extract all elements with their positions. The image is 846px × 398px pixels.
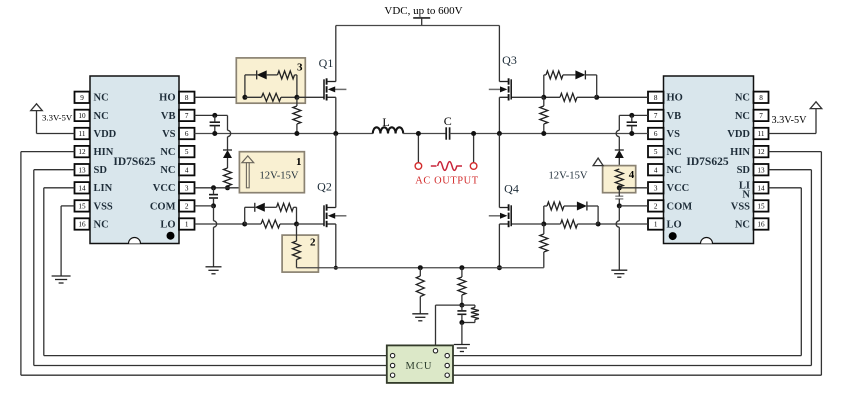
svg-text:4: 4 — [654, 166, 658, 174]
svg-text:1: 1 — [296, 156, 302, 168]
U2 pin 13 box — [754, 164, 769, 175]
node sense R rail — [418, 265, 423, 270]
U2 pin 14 box — [754, 182, 769, 193]
U2 pin label LIN wrapped — [739, 180, 751, 200]
node Q3 gate — [541, 95, 546, 100]
label 12V-15V right — [549, 171, 588, 182]
diode D-boot left — [223, 150, 232, 168]
svg-text:6: 6 — [654, 130, 658, 138]
U2 pin label VSS — [731, 201, 750, 212]
wire VCC left — [195, 187, 248, 189]
ground sense left — [412, 314, 428, 321]
node COM junction — [211, 203, 216, 208]
resistor R-gate-off Q4 — [544, 202, 577, 210]
wire Q3 branch vertical right — [596, 75, 598, 97]
U1 pin 6 box — [179, 128, 195, 139]
svg-text:9: 9 — [80, 94, 84, 102]
resistor R-pulldown Q3 — [540, 97, 548, 133]
svg-text:15: 15 — [757, 203, 765, 211]
svg-text:7: 7 — [185, 112, 189, 120]
wire sense to MCU — [436, 305, 462, 348]
svg-text:VCC: VCC — [667, 183, 690, 194]
node box3 right — [294, 95, 299, 100]
transistor Q4 — [489, 204, 511, 227]
node Q4 net right — [596, 222, 601, 227]
transistor Q2 — [324, 204, 346, 227]
U1 pin label NC — [94, 111, 109, 122]
power VDC T-bar symbol — [413, 18, 430, 26]
U1 pin 5 box — [179, 146, 195, 157]
label Q3 — [502, 53, 517, 67]
svg-text:VB: VB — [667, 111, 682, 122]
wire LIN right — [453, 188, 801, 356]
resistor R-pulldown Q4 — [540, 224, 548, 268]
wire divider to ground — [461, 323, 463, 345]
svg-text:NC: NC — [735, 219, 750, 230]
U2 pin label SD — [737, 165, 751, 176]
U2 pin 11 box — [754, 128, 769, 139]
U2 pin 6 box — [648, 128, 664, 139]
wire COM right — [619, 205, 648, 207]
svg-text:8: 8 — [759, 94, 763, 102]
wire Q1 drain from rail — [335, 26, 337, 82]
svg-text:11: 11 — [758, 130, 765, 138]
svg-text:VSS: VSS — [94, 201, 113, 212]
svg-text:1: 1 — [185, 221, 189, 229]
power flag 12V-15V arrow in box1 — [242, 156, 254, 188]
node AC output left junction — [416, 131, 421, 136]
svg-text:NC: NC — [160, 165, 175, 176]
svg-text:8: 8 — [185, 94, 189, 102]
wire Q3 branch vertical left — [543, 75, 545, 97]
wire COM left — [195, 205, 214, 207]
node boot cap to VS — [212, 131, 217, 136]
svg-text:LIN: LIN — [94, 183, 113, 194]
U2 pin 12 box — [754, 146, 769, 157]
resistor R-gate-off Q1 — [278, 71, 295, 79]
label Q4 — [504, 182, 519, 196]
U2 pin 7 box — [648, 110, 664, 121]
U2 pin 16 box — [754, 218, 769, 229]
svg-text:NC: NC — [667, 165, 682, 176]
svg-text:3.3V-5V: 3.3V-5V — [772, 115, 808, 126]
svg-text:14: 14 — [78, 184, 86, 192]
resistor R-div-bottom parallel — [462, 305, 479, 322]
capacitor C-vcc left — [209, 188, 218, 206]
U1 pin label NC — [160, 165, 175, 176]
svg-text:NC: NC — [160, 147, 175, 158]
wire LIN left — [44, 188, 387, 356]
svg-text:ID7S625: ID7S625 — [113, 156, 155, 168]
wire HIN left — [21, 152, 387, 376]
diode D-gate-Q2 — [245, 203, 277, 212]
svg-text:3: 3 — [297, 62, 303, 74]
U1 pin 2 box — [179, 200, 195, 211]
IC U1 gate driver ID7S625 body — [90, 76, 179, 244]
U2 pin label NC — [735, 93, 750, 104]
U1 pin label LIN — [94, 183, 113, 194]
ground divider — [454, 345, 470, 352]
highlight box 3 — [236, 58, 305, 103]
U2 pin 15 box — [754, 200, 769, 211]
resistor R-gate-on Q3 — [544, 93, 597, 101]
svg-text:8: 8 — [654, 94, 658, 102]
svg-text:VS: VS — [162, 129, 176, 140]
wire L to C — [403, 133, 446, 135]
svg-text:Q1: Q1 — [319, 56, 334, 70]
U1 pin label VS — [162, 129, 176, 140]
node Q2 gate — [294, 222, 299, 227]
U2 pin label NC — [735, 111, 750, 122]
resistor R-gate-off Q2 — [277, 203, 297, 211]
node phase right — [497, 131, 502, 136]
svg-text:HIN: HIN — [94, 147, 114, 158]
wire LO left — [195, 223, 245, 225]
svg-text:SD: SD — [94, 165, 108, 176]
wire top rail VDC — [336, 25, 500, 27]
wire Q4 drain to phase — [498, 134, 500, 208]
U1 pin 10 box — [75, 110, 90, 121]
MCU label — [406, 361, 433, 372]
wire VCC right — [619, 187, 648, 189]
resistor R-gate-on Q1 — [245, 93, 297, 101]
wire box3 right branch vertical — [295, 75, 297, 97]
diode D-gate-Q4 — [577, 202, 598, 211]
svg-text:1: 1 — [654, 221, 658, 229]
U1 pin 11 box — [75, 128, 90, 139]
wire COM to ground — [214, 206, 217, 267]
wire Q4 branch vertical right — [597, 206, 599, 224]
node divider rail — [459, 265, 464, 270]
capacitor C-boot right — [627, 115, 637, 133]
U1 pin label NC — [94, 219, 109, 230]
MCU left pin 3 — [390, 373, 394, 377]
U2 name label — [686, 156, 728, 168]
U1 pin 13 box — [75, 164, 90, 175]
U2 pin 3 box — [648, 182, 664, 193]
wire Q1 gate lead — [297, 96, 324, 98]
svg-text:3.3V-5V: 3.3V-5V — [42, 113, 73, 123]
wire AC terminal right drop — [473, 134, 475, 163]
svg-text:Q4: Q4 — [504, 182, 519, 196]
svg-text:2: 2 — [310, 237, 316, 249]
resistor R-gate-on Q4 — [544, 220, 598, 228]
diode D-boot right — [615, 150, 624, 168]
wire SD left — [34, 170, 387, 366]
svg-text:12: 12 — [78, 148, 86, 156]
svg-text:VS: VS — [667, 129, 681, 140]
AC waveform symbol — [431, 162, 462, 171]
terminal AC output left circle — [415, 163, 422, 170]
svg-text:7: 7 — [654, 112, 658, 120]
node Q3 pulldown to VS — [541, 131, 546, 136]
node Q4 gate — [541, 222, 546, 227]
transistor Q1 — [324, 78, 346, 100]
power flag 12V-15V arrow right — [593, 158, 603, 166]
svg-text:12V-15V: 12V-15V — [260, 171, 299, 182]
svg-text:11: 11 — [79, 130, 86, 138]
svg-text:L: L — [382, 115, 389, 129]
svg-text:COM: COM — [667, 201, 693, 212]
U1 pin 12 box — [75, 146, 90, 157]
node Q2 source rail — [334, 266, 338, 270]
wire AC terminal left drop — [417, 134, 419, 163]
U1 pin 9 box — [75, 92, 90, 103]
U2 pin 2 box — [648, 200, 664, 211]
wire VB right — [619, 114, 648, 116]
node phase left — [333, 131, 338, 136]
svg-text:VCC: VCC — [153, 183, 176, 194]
wire VB branch down right — [616, 115, 619, 150]
svg-text:16: 16 — [757, 221, 765, 229]
svg-text:2: 2 — [185, 203, 189, 211]
label 3.3V-5V right — [772, 115, 808, 126]
MCU right pin 2 — [445, 363, 449, 367]
resistor R-gate-on Q2 — [245, 220, 297, 228]
wire Q2 gate lead — [297, 223, 325, 225]
wire HO right — [597, 96, 648, 98]
U2 pin label VB — [667, 111, 682, 122]
highlight box 1 — [239, 152, 304, 193]
wire R-sense1 to ground — [419, 297, 421, 314]
resistor R-sense1 — [416, 268, 424, 297]
inductor L — [373, 127, 403, 133]
label AC OUTPUT — [415, 176, 478, 187]
ground COM right — [611, 270, 627, 277]
capacitor C-vcc right — [615, 188, 623, 206]
node Q1 pulldown to VS — [294, 131, 299, 136]
U1 pin 3 box — [179, 182, 195, 193]
svg-text:HO: HO — [159, 93, 175, 104]
label 3.3V-5V left — [42, 113, 73, 123]
svg-text:SD: SD — [737, 165, 751, 176]
svg-text:MCU: MCU — [406, 361, 433, 372]
U1 pin label NC — [94, 93, 109, 104]
U2 pin label COM — [667, 201, 693, 212]
node VB cap junction — [212, 113, 217, 118]
svg-text:HO: HO — [667, 93, 683, 104]
node box3 left — [242, 95, 247, 100]
wire Q2 branch vertical right — [296, 207, 298, 224]
capacitor C-boot left — [210, 115, 220, 133]
wire Q3 source to VS — [498, 97, 500, 133]
svg-text:NC: NC — [94, 111, 109, 122]
U2 pin label VS — [667, 129, 681, 140]
wire box3 left branch vertical — [244, 75, 246, 97]
svg-text:NC: NC — [94, 93, 109, 104]
svg-text:NC: NC — [735, 111, 750, 122]
svg-text:VDD: VDD — [727, 129, 750, 140]
svg-text:AC OUTPUT: AC OUTPUT — [415, 176, 478, 187]
resistor R-boot left — [224, 168, 232, 188]
svg-text:12: 12 — [757, 148, 765, 156]
wire VSS left — [61, 206, 74, 276]
U1 pin label VDD — [94, 129, 117, 140]
capacitor C-filter — [457, 305, 466, 322]
wire Q2 drain to phase — [335, 134, 337, 208]
node AC output right junction — [471, 131, 476, 136]
svg-text:C: C — [444, 114, 452, 128]
U1 pin label VSS — [94, 201, 113, 212]
svg-text:3: 3 — [185, 184, 189, 192]
U1 pin label HIN — [94, 147, 114, 158]
svg-text:2: 2 — [654, 203, 658, 211]
wire Q3 drain from rail — [498, 26, 500, 82]
highlight box 4 — [603, 166, 636, 193]
power flag 3.3V-5V left arrow — [31, 104, 75, 134]
U1 pin label VCC — [153, 183, 176, 194]
svg-text:NC: NC — [667, 147, 682, 158]
svg-text:15: 15 — [78, 203, 86, 211]
node R-boot to VCC right — [617, 185, 622, 190]
U2 pin 5 box — [648, 146, 664, 157]
wire HO left to box3 — [195, 96, 245, 98]
U2 pin label HIN — [730, 147, 750, 158]
diode D-gate-Q3 — [575, 70, 596, 79]
node divider bottom — [459, 320, 464, 325]
node Q4 source rail — [497, 265, 502, 270]
wire Q4 source to bottom rail — [498, 224, 500, 268]
wire Q3 gate lead — [511, 96, 544, 98]
capacitor C plates — [446, 127, 449, 139]
U2 pin 7 box — [754, 110, 769, 121]
wire bottom rail — [297, 267, 544, 269]
node Q3 net right — [594, 95, 599, 100]
svg-text:4: 4 — [629, 169, 635, 181]
wire Q2 source to bottom rail — [335, 224, 337, 268]
U2 pin label VCC — [667, 183, 690, 194]
wire Q2 branch vertical left — [244, 207, 246, 224]
wire VB left — [195, 114, 228, 116]
svg-text:6: 6 — [185, 130, 189, 138]
MCU right pin 1 — [445, 353, 449, 357]
MCU top pin — [433, 349, 437, 353]
svg-text:HIN: HIN — [730, 147, 750, 158]
U1 name label — [113, 156, 155, 168]
MCU block — [387, 345, 453, 383]
MCU left pin 1 — [390, 353, 394, 357]
U1 pin label NC — [160, 147, 175, 158]
U1 pin label COM — [150, 201, 176, 212]
svg-text:10: 10 — [78, 112, 86, 120]
IC U2 gate driver ID7S625 body — [664, 76, 754, 244]
U1 pin label LO — [160, 219, 175, 230]
svg-text:7: 7 — [759, 112, 763, 120]
svg-text:VB: VB — [161, 111, 176, 122]
U1 pin 4 box — [179, 164, 195, 175]
MCU left pin 2 — [390, 363, 394, 367]
U1 pin 1 box — [179, 218, 195, 229]
svg-text:LO: LO — [160, 219, 175, 230]
U2 pin 4 box — [648, 164, 664, 175]
svg-text:4: 4 — [185, 166, 189, 174]
diode D-gate-Q1 — [245, 70, 278, 79]
net VDC label — [384, 5, 462, 17]
label Q1 — [319, 56, 334, 70]
wire Q4 gate lead — [511, 223, 544, 225]
transistor Q3 — [489, 78, 511, 100]
power flag 3.3V-5V right arrow — [769, 102, 822, 134]
node R-boot to VCC — [225, 185, 230, 190]
node divider mid — [459, 303, 464, 308]
U2 pin 1 box — [648, 218, 664, 229]
resistor R-div-top — [458, 268, 466, 305]
U1 pin label HO — [159, 93, 175, 104]
wire VS rail left segment — [195, 133, 373, 135]
label C — [444, 114, 452, 128]
svg-text:13: 13 — [757, 166, 765, 174]
MCU right pin 3 — [445, 373, 449, 377]
wire HIN right — [453, 152, 821, 376]
node VCC cap junction — [211, 185, 216, 190]
svg-text:VDD: VDD — [94, 129, 117, 140]
node VB cap junction right — [629, 113, 634, 118]
U2 pin label NC — [735, 219, 750, 230]
wire COM to ground right — [616, 206, 619, 270]
svg-text:NC: NC — [94, 219, 109, 230]
node Q2 net left — [242, 222, 247, 227]
wire VB branch down — [228, 115, 231, 150]
ground VSS left — [52, 276, 71, 283]
resistor R-boot right in box4 — [615, 169, 623, 188]
highlight box 2 — [282, 235, 318, 272]
U1 pin label VB — [161, 111, 176, 122]
svg-text:12V-15V: 12V-15V — [549, 171, 588, 182]
svg-text:VSS: VSS — [731, 201, 750, 212]
resistor R-gate-off Q3 — [544, 71, 576, 79]
U2 pin label HO — [667, 93, 683, 104]
label L — [382, 115, 389, 129]
U2 pin label LO — [667, 219, 682, 230]
resistor R-pulldown Q2 in box2 — [293, 224, 301, 268]
U1 pin 14 box — [75, 182, 90, 193]
svg-text:14: 14 — [757, 184, 765, 192]
wire Q1 source to VS — [335, 97, 337, 133]
terminal AC output right circle — [470, 163, 477, 170]
svg-text:16: 16 — [78, 221, 86, 229]
wire LO right — [598, 223, 648, 225]
wire C to right VS — [450, 133, 648, 135]
svg-text:ID7S625: ID7S625 — [686, 156, 728, 168]
wire Q4 branch vertical left — [543, 206, 545, 224]
svg-text:Q2: Q2 — [317, 180, 332, 194]
U2 pin label NC — [667, 147, 682, 158]
U1 pin 8 box — [179, 92, 195, 103]
U2 pin 8 box — [754, 92, 769, 103]
svg-text:NC: NC — [735, 93, 750, 104]
resistor R-pulldown Q1 — [293, 97, 301, 133]
node boot cap to VS right — [629, 131, 634, 136]
svg-text:N: N — [742, 189, 750, 200]
svg-text:LO: LO — [667, 219, 682, 230]
svg-text:VDC, up to 600V: VDC, up to 600V — [384, 5, 462, 17]
node COM junction right — [617, 203, 622, 208]
svg-text:3: 3 — [654, 184, 658, 192]
svg-text:Q3: Q3 — [502, 53, 517, 67]
svg-text:5: 5 — [654, 148, 658, 156]
U1 pin label SD — [94, 165, 108, 176]
U2 pin label VDD — [727, 129, 750, 140]
label 12V-15V left — [260, 171, 299, 182]
svg-text:13: 13 — [78, 166, 86, 174]
U2 pin 8 box — [648, 92, 664, 103]
svg-text:COM: COM — [150, 201, 176, 212]
U1 pin 15 box — [75, 200, 90, 211]
U1 pin 7 box — [179, 110, 195, 121]
U1 pin 16 box — [75, 218, 90, 229]
svg-text:5: 5 — [185, 148, 189, 156]
U2 pin label NC — [667, 165, 682, 176]
